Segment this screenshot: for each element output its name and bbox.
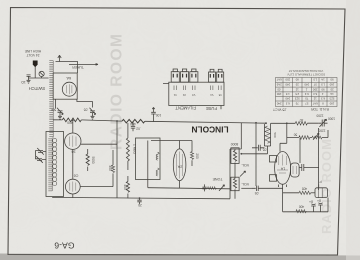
svg-text:160: 160 [329,82,334,86]
svg-text:RADIO ROOM: RADIO ROOM [319,138,334,234]
svg-text:100: 100 [156,113,162,117]
svg-text:2.5: 2.5 [295,92,299,96]
svg-text:.02: .02 [136,127,141,131]
tone pot R10 [231,177,239,191]
trimmer capacitor C10 [318,119,327,127]
svg-text:240: 240 [276,102,281,106]
padder capacitor C7 [36,156,46,163]
resistor R2 on bus [122,119,145,123]
svg-text:75: 75 [305,97,309,101]
svg-text:6A: 6A [66,76,71,80]
socket pin marks in box [174,86,221,91]
wire vertical right [255,123,257,187]
svg-text:8000: 8000 [231,142,239,146]
svg-text:300: 300 [108,165,112,171]
svg-text:40: 40 [300,118,304,122]
IF coil bottom [156,168,159,176]
wire to right vertical [307,128,319,190]
resistor R12 row [287,123,299,137]
tube V3 6C6 [65,179,80,194]
svg-text:FUSE: FUSE [206,106,217,111]
svg-text:25: 25 [138,203,142,207]
svg-text:2A: 2A [177,165,182,169]
resistor R11 40 [295,122,307,126]
svg-text:6A7: 6A7 [312,102,317,106]
B+ bus wire [53,120,318,124]
rectifier tube V6 [291,163,300,177]
wire vertical x147.8 [147,141,149,188]
filter choke L3 [264,123,270,154]
darker band below bottom border [0,254,360,260]
svg-text:8+: 8+ [309,200,313,204]
svg-text:P: P [319,180,321,184]
svg-text:1.5: 1.5 [285,92,289,96]
wire lower [241,187,252,189]
svg-text:.05: .05 [255,191,260,195]
resistor R5 [127,123,129,138]
svg-text:.05: .05 [84,108,89,112]
svg-text:80: 80 [295,78,299,82]
electrolytic C13 [311,204,316,212]
svg-text:90: 90 [321,87,325,91]
wire pot to output [241,153,267,155]
svg-text:LINCOLN: LINCOLN [191,124,228,134]
capacitor C1 [27,75,31,80]
osc coil L2 loops [53,138,57,185]
svg-text:180: 180 [329,102,334,106]
svg-text:405: 405 [302,187,308,191]
svg-text:TUNER: TUNER [72,65,84,69]
capacitor C12 [252,186,283,191]
wiper arrow [240,171,246,177]
socket 5 [217,69,224,82]
IF transformer box [136,138,161,180]
svg-text:5000: 5000 [91,156,95,163]
svg-text:5Z3: 5Z3 [329,97,334,101]
antenna coil L1 winding bar [48,61,53,191]
wire V2 to V3 [72,149,74,179]
wire tube top [280,138,287,152]
wire plug down [34,67,36,78]
tube V1 6A7 [62,82,76,96]
capacitor C5 [131,122,135,132]
svg-text:50: 50 [294,133,298,137]
padder capacitor C6 [37,148,46,155]
resistor R3 [87,149,89,154]
svg-text:1A: 1A [280,167,285,171]
resistor R13 [283,192,300,194]
svg-text:1A: 1A [330,92,334,96]
socket 4 [209,69,216,82]
wire bus to V2 [72,120,74,133]
svg-text:HIGH LINE: HIGH LINE [24,49,41,53]
wire to coil [29,77,49,79]
wire V3 to bottom bus [72,194,74,198]
coil assembly box [46,132,64,197]
svg-text:24 VOLT: 24 VOLT [27,53,40,57]
svg-text:TONE: TONE [212,177,223,181]
svg-text:200: 200 [195,153,199,159]
speaker voice coil [315,188,328,198]
IF coil top [156,152,159,160]
resistor R7 [191,141,193,152]
fuse plug blob [33,61,38,68]
trimmer capacitor C3 [90,108,96,116]
switch S1 [39,71,44,76]
svg-text:240: 240 [304,82,309,86]
svg-text:.1Ω: .1Ω [21,80,27,84]
socket 3 [190,69,198,82]
trimmer capacitor C2 [57,108,63,116]
socket 2 [181,69,189,82]
wire tube bottom down [282,184,284,212]
table cell smudges [276,78,334,106]
wiper arrow [219,185,225,191]
svg-text:250: 250 [312,87,317,91]
svg-text:12: 12 [313,97,317,101]
svg-text:240: 240 [285,97,290,101]
svg-text:2A5: 2A5 [276,82,281,86]
svg-text:1A: 1A [321,78,325,82]
svg-text:500: 500 [51,108,57,112]
svg-text:VOL.: VOL. [241,182,249,186]
wire vertical x117 [116,121,118,198]
svg-text:1 MEG: 1 MEG [133,144,137,154]
svg-text:6.3: 6.3 [304,92,308,96]
tube V2 34 [65,133,81,149]
svg-text:25: 25 [295,82,299,86]
svg-text:250: 250 [285,78,290,82]
output tube V5 [275,152,291,185]
svg-text:VOL.: VOL. [241,163,249,167]
antenna [58,55,61,61]
leads below box [55,99,92,108]
svg-text:400: 400 [67,120,73,124]
wire bottom horizontal [148,188,230,189]
wire antenna to box [56,62,78,74]
capacitor C11 [252,145,264,151]
svg-text:500: 500 [273,132,277,137]
below table text [273,107,329,112]
socket 1 [171,69,179,82]
svg-text:12: 12 [295,87,299,91]
resistor R14 [296,210,306,213]
capacitor C8 on bottom bus [137,198,141,204]
svg-text:400: 400 [123,184,127,190]
svg-text:90: 90 [330,78,334,82]
svg-text:.25 W.CT: .25 W.CT [273,108,287,112]
svg-text:GA-6: GA-6 [54,241,74,251]
resistor R8 [208,187,217,190]
electrolytic C14 [318,203,323,212]
resistor R1 400 [62,118,81,122]
svg-text:1200: 1200 [316,113,323,117]
table header smudge [287,69,326,76]
bottom line right [283,198,328,212]
svg-text:240: 240 [285,82,290,86]
svg-text:.05: .05 [263,148,268,152]
wire top horizontal [151,140,192,142]
svg-text:.05: .05 [277,87,281,91]
wire V2 grid right [81,143,117,145]
svg-text:25: 25 [330,87,334,91]
capacitor C15 [299,138,306,171]
tube V4 2A [173,149,186,181]
resistor R4 [112,150,114,165]
svg-text:SWITCH: SWITCH [29,86,46,91]
svg-text:5Z3: 5Z3 [294,97,299,101]
svg-text:1000: 1000 [328,117,335,121]
wire V3 grid right [80,186,113,188]
svg-text:6.3: 6.3 [313,92,317,96]
svg-text:R.N.D. TDR: R.N.D. TDR [310,107,329,111]
ground [27,80,31,83]
svg-text:6.3: 6.3 [285,102,289,106]
capacitor C9 [202,184,206,191]
filament supply box [169,82,224,105]
svg-text:57: 57 [305,102,309,106]
svg-text:1.5: 1.5 [313,78,317,82]
capacitor C4 [151,107,156,122]
wire tuner arrow [69,64,98,66]
svg-text:34: 34 [71,150,75,154]
svg-text:1.5: 1.5 [321,82,325,86]
svg-text:180: 180 [276,92,281,96]
svg-text:57: 57 [313,82,317,86]
svg-text:6.3: 6.3 [321,97,325,101]
svg-text:8+: 8+ [317,199,321,203]
bottom ground bus [52,197,230,198]
resistor R6 [127,176,129,182]
label HIGH LINE 24 VOLT [24,49,41,57]
svg-text:400: 400 [299,205,305,209]
svg-text:75: 75 [295,102,299,106]
tube chart table [276,78,338,107]
svg-text:1200: 1200 [318,129,325,133]
svg-text:FILAMENT: FILAMENT [175,106,196,111]
shield box V1 [53,73,77,99]
svg-text:SOCKET TERMINALS 117V.: SOCKET TERMINALS 117V. [287,73,326,77]
pot wiper [312,136,322,139]
svg-text:6A7: 6A7 [276,78,281,82]
svg-text:C6: C6 [74,174,79,178]
